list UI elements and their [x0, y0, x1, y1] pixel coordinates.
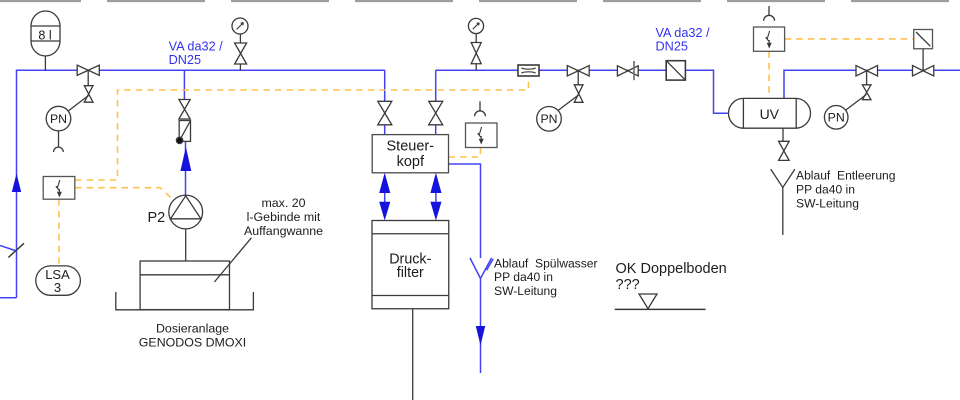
wire PN1 vent stem — [58, 131, 60, 147]
svg-text:???: ??? — [616, 277, 640, 293]
svg-text:GENODOS DMOXI: GENODOS DMOXI — [139, 336, 246, 350]
wire box4 to valve V4 — [922, 49, 924, 71]
svg-text:PN: PN — [828, 111, 845, 125]
hand valve below V2 — [574, 85, 583, 103]
wire valve V1 stem — [87, 70, 89, 85]
dosing injection body — [179, 121, 190, 142]
wire valve V3 stem — [866, 71, 868, 85]
drain valve below UV — [779, 141, 790, 160]
svg-text:max. 20: max. 20 — [261, 196, 305, 210]
wire between double arrows line1 — [384, 193, 386, 202]
svg-text:Ablauf Entleerung: Ablauf Entleerung — [796, 168, 896, 182]
svg-text:P2: P2 — [148, 210, 166, 226]
steuerkopf box — [372, 135, 448, 173]
signal line box3 to solenoid box4 — [785, 38, 914, 40]
wire spuelwasser drain below funnel — [480, 279, 482, 374]
flow arrow down spuelwasser drain — [476, 326, 485, 346]
signal line box1 to pump P2 — [75, 188, 174, 200]
svg-text:PP da40 in: PP da40 in — [796, 183, 855, 197]
wire entleerung drain line — [782, 188, 784, 236]
signal converter box3 — [754, 27, 785, 51]
leader line to tank — [214, 238, 251, 282]
flow sensor — [518, 65, 539, 76]
svg-text:Auffangwanne: Auffangwanne — [244, 224, 323, 238]
signal converter box1 — [43, 177, 75, 200]
valve V1 main pipe left — [77, 65, 99, 75]
wire dosing branch down from pipe — [183, 70, 185, 99]
svg-text:PN: PN — [540, 112, 557, 126]
wire steuerkopf to spuelwasser drain — [449, 164, 481, 258]
valve V2 — [567, 66, 589, 77]
dosing injection valve bowtie — [179, 100, 190, 120]
hand valve below V3 — [862, 85, 871, 100]
wire pipe stub bottom left — [0, 297, 17, 299]
svg-text:l-Gebinde mit: l-Gebinde mit — [247, 210, 321, 224]
svg-text:3: 3 — [54, 280, 61, 295]
valve V4 motorized — [913, 66, 934, 77]
svg-text:Dosieranlage: Dosieranlage — [156, 322, 229, 336]
svg-text:Ablauf Spülwasser: Ablauf Spülwasser — [494, 256, 598, 270]
UV reactor — [729, 98, 811, 128]
solenoid box4 — [914, 30, 933, 49]
svg-text:VA da32 /: VA da32 / — [656, 26, 711, 40]
wire link valve to PN3 — [846, 95, 867, 111]
gauge G1 — [232, 18, 248, 34]
expansion vessel 8l — [31, 11, 60, 70]
wire link valve to PN1 — [68, 96, 88, 112]
vent symbol above box2 — [475, 101, 486, 116]
wire gauge G2 stem — [475, 34, 477, 43]
dosing tank — [140, 261, 229, 310]
steuerkopf inlet valve A — [378, 101, 392, 125]
vent symbol above box3 — [764, 6, 775, 21]
wire SV2 to pipe — [475, 64, 477, 70]
valve V3 uv outlet — [856, 66, 878, 77]
wire dosing valve to pump — [185, 141, 187, 196]
signal line box2 to steuerkopf — [449, 148, 481, 158]
svg-text:OK Doppelboden: OK Doppelboden — [616, 261, 727, 277]
vent arc below PN1 — [54, 147, 64, 152]
svg-text:filter: filter — [397, 265, 424, 281]
signal line box1 to LSA3 — [58, 199, 60, 265]
flow arrow up into steuerkopf line2 — [430, 173, 441, 193]
flow arrow up left riser — [12, 174, 21, 193]
pump P2 — [169, 195, 203, 261]
svg-text:UV: UV — [760, 106, 780, 122]
wire steuerkopf outlet riser — [435, 70, 437, 135]
page edge dashes top — [0, 0, 960, 2]
gauge G2 — [468, 18, 483, 33]
safety valve SV2 — [471, 43, 481, 64]
instrument PN2 — [537, 107, 562, 132]
svg-text:DN25: DN25 — [656, 40, 688, 54]
signal converter box2 — [466, 123, 498, 148]
check valve — [617, 61, 638, 80]
wire between double arrows line2 — [435, 193, 437, 202]
svg-text:8 l: 8 l — [38, 28, 51, 42]
drip pan — [116, 292, 254, 310]
hand valve below V1 — [84, 86, 93, 103]
steuerkopf inlet valve B — [429, 101, 443, 125]
wire branch inlet diagonal left edge — [0, 246, 17, 252]
wire SV1 to pipe — [239, 64, 241, 70]
svg-text:Steuer-: Steuer- — [387, 139, 435, 155]
wire link valve to PN2 — [558, 95, 579, 111]
leader slash spuelwasser — [487, 259, 494, 270]
svg-text:PP da40 in: PP da40 in — [494, 270, 553, 284]
strainer box — [666, 61, 685, 80]
wire valve V2 stem — [577, 71, 579, 85]
wire uv outlet riser — [784, 70, 960, 98]
svg-text:kopf: kopf — [397, 154, 425, 170]
wire main pipe left segment — [17, 70, 386, 298]
flow arrow down into druckfilter line1 — [379, 202, 390, 221]
flow arrow up into steuerkopf line1 — [379, 173, 390, 193]
wire gauge G1 stem — [239, 34, 241, 43]
funnel entleerung — [771, 169, 795, 187]
druckfilter vessel — [372, 221, 449, 309]
flow arrow up into dosing valve — [180, 147, 191, 171]
wire main pipe right segment — [436, 70, 729, 113]
funnel spuelwasser blue — [470, 258, 492, 279]
node dosing point — [176, 137, 182, 143]
svg-text:SW-Leitung: SW-Leitung — [494, 284, 557, 298]
instrument PN3 — [824, 106, 848, 130]
signal line box1 to flow sensor — [75, 76, 529, 180]
wire druckfilter bottom drain — [412, 309, 414, 400]
wire UV drain stem — [782, 128, 784, 141]
wire steuerkopf inlet drop — [384, 70, 386, 135]
svg-text:DN25: DN25 — [169, 53, 201, 67]
svg-text:VA da32 /: VA da32 / — [169, 39, 224, 53]
instrument LSA3 — [36, 266, 81, 295]
flow arrow down into druckfilter line2 — [430, 202, 441, 221]
slash mark on left branch junction — [8, 243, 24, 257]
svg-text:PN: PN — [50, 112, 67, 126]
svg-text:SW-Leitung: SW-Leitung — [796, 197, 859, 211]
signal line box3 to UV — [768, 51, 770, 98]
instrument PN1 — [46, 106, 71, 131]
level mark doppelboden — [615, 294, 706, 309]
safety valve SV1 — [235, 43, 247, 64]
